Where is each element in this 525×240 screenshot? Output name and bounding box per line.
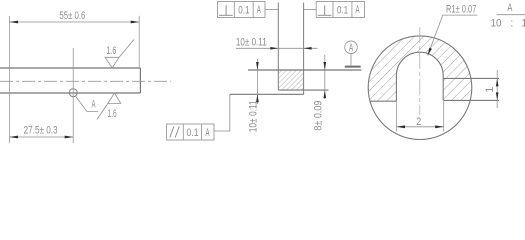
dimension 2 extension right — [443, 100, 445, 131]
FCF3 leader — [214, 94, 230, 131]
svg-text:0.1: 0.1 — [187, 127, 199, 139]
svg-text::: : — [510, 17, 513, 29]
dimension 27.5±0.3 line — [10, 136, 74, 139]
FCF2 leader — [304, 9, 317, 11]
hatch of boss cross-section — [278, 70, 303, 90]
plate right end edge — [139, 68, 141, 93]
detail callout circle A — [345, 41, 358, 66]
datum target circle on bottom edge — [69, 89, 77, 97]
centerline (dash-dot) — [0, 80, 171, 82]
dimension 1 line — [496, 70, 499, 108]
right spring line — [443, 77, 499, 79]
boss left edge / extension (x=278.3) — [277, 3, 279, 91]
boss right edge / extension (x=303.6) — [303, 3, 305, 95]
svg-text:A: A — [349, 42, 354, 54]
svg-text:A: A — [356, 4, 360, 16]
svg-text:55± 0.6: 55± 0.6 — [59, 10, 85, 22]
FCF1 leader — [265, 9, 278, 11]
svg-text:2: 2 — [416, 116, 421, 128]
detail label fraction bar — [497, 14, 525, 16]
extension line right of 55 dim (x=139.2) — [138, 16, 140, 68]
right floor line — [443, 99, 499, 101]
svg-text:1: 1 — [521, 17, 525, 29]
svg-text:0.1: 0.1 — [238, 5, 249, 17]
svg-text:10: 10 — [491, 17, 502, 29]
dimension 10±0.11 horizontal — [236, 47, 318, 50]
detail label scale 10 : 1 — [491, 17, 525, 29]
roughness symbol 1.6 on bottom edge (flipped) — [97, 93, 121, 119]
plate top edge — [0, 67, 140, 69]
svg-text:27.5± 0.3: 27.5± 0.3 — [24, 125, 58, 137]
svg-text:1.6: 1.6 — [106, 45, 116, 57]
extension line left (x=9.5) — [9, 16, 11, 143]
svg-text:A: A — [206, 127, 210, 139]
datum A leader — [75, 96, 98, 112]
feature control frame parallelism — [167, 124, 215, 140]
svg-text:1: 1 — [484, 87, 496, 93]
svg-text:A: A — [92, 99, 96, 111]
lower surface line — [230, 93, 304, 95]
hatched section of detail — [368, 35, 472, 101]
plate bottom edge — [0, 92, 140, 94]
svg-text:0.1: 0.1 — [337, 5, 348, 17]
svg-text:A: A — [257, 4, 261, 16]
detail region thick mark — [345, 66, 361, 68]
svg-text:1.6: 1.6 — [108, 108, 117, 120]
feature control frame perpendicularity right — [316, 2, 364, 18]
slot centerline — [419, 27, 421, 115]
dimension 2 extension left — [396, 101, 398, 131]
roughness symbol 1.6 on top edge — [105, 40, 134, 68]
dimension 10±0.11 vertical line — [256, 59, 259, 104]
vertical line through datum circle (x=73.2) — [72, 48, 74, 143]
svg-text:R1± 0.07: R1± 0.07 — [446, 4, 476, 16]
dimension 8±0.09 line — [324, 55, 327, 99]
svg-text:A: A — [507, 2, 512, 14]
svg-text:8± 0.09: 8± 0.09 — [313, 101, 325, 131]
left floor line — [370, 100, 396, 102]
R1±0.07 leader — [428, 15, 478, 55]
step surface line — [278, 89, 328, 91]
slot outline (walls and radius) — [396, 52, 443, 101]
dimension 55±0.6 line — [10, 21, 140, 24]
dimension 2 line — [397, 125, 444, 128]
big circle of detail view — [368, 36, 472, 140]
svg-text:10± 0.11: 10± 0.11 — [248, 100, 260, 132]
feature control frame perpendicularity left — [218, 2, 266, 18]
top surface line — [248, 69, 361, 71]
svg-text:10± 0.11: 10± 0.11 — [236, 37, 267, 49]
